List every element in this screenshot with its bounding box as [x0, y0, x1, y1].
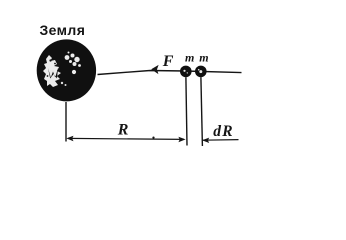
svg-text:R: R	[117, 122, 129, 139]
continents (white patches inside Earth)	[43, 55, 61, 87]
svg-text:F: F	[162, 53, 174, 70]
wire: vertical extension line from mass 2	[201, 77, 203, 146]
wire: vertical extension line from Earth center	[65, 102, 67, 142]
dimension line R with arrows	[66, 136, 185, 142]
mass ball 1	[180, 66, 192, 78]
force arrowhead F (pointing left)	[151, 65, 158, 74]
svg-text:m: m	[199, 50, 208, 64]
svg-text:dR: dR	[213, 123, 234, 140]
ink blot on dimension line	[152, 137, 154, 139]
svg-text:m: m	[185, 50, 194, 64]
wire: main horizontal line from Earth to right	[98, 71, 242, 75]
Earth sphere	[37, 39, 96, 101]
dimension line dR (arrow pointing left at mass-2 line, tail to the right)	[202, 138, 239, 143]
svg-text:Земля: Земля	[40, 22, 86, 38]
wire: vertical extension line from mass 1	[186, 77, 187, 145]
mass ball 2	[195, 66, 207, 78]
